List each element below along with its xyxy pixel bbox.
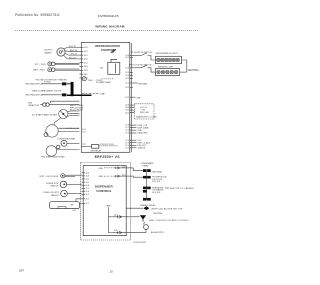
svg-text:WHT-16: WHT-16 [70,50,78,52]
svg-text:CONTROL: CONTROL [96,189,111,193]
svg-text:J2-2: J2-2 [85,179,89,181]
svg-text:J1-2: J1-2 [85,199,89,201]
svg-text:CONDENSER FAN: CONDENSER FAN [57,137,75,140]
net labels display bus [138,125,151,150]
ice cube paddle switch S5 [43,190,82,197]
dispenser assembly dashed boundary [81,163,131,241]
wire line bus vertical [108,207,112,232]
wire row2 with connector blobs [132,176,144,177]
heavy line wire into board [67,94,92,96]
svg-text:J2-3: J2-3 [85,176,89,178]
svg-text:SW RELAY: SW RELAY [91,150,102,153]
wire keypad to board [79,203,81,205]
wire evap fan to compressor [54,118,60,125]
neutral bus bar (black) [71,82,74,96]
auger motor connector diamond [143,206,149,210]
DC evaporator fan motor M1 [59,109,68,118]
FRZ door switch S2 [134,65,155,72]
SW relay K2 inside board [91,145,98,149]
svg-text:J1-2: J1-2 [82,144,86,146]
water valve V1 [140,215,190,222]
dotted separator line [15,29,199,31]
svg-text:LINE: LINE [98,176,103,178]
svg-text:WIRING DIAGRAM: WIRING DIAGRAM [95,25,125,29]
relay K1 inside board [108,49,120,74]
svg-text:BLK-16: BLK-16 [69,46,77,48]
svg-text:AND CUSHION ICE AND CONTROL: AND CUSHION ICE AND CONTROL [149,219,189,222]
pin J6-4 arrow [113,215,127,218]
wire capacitor rows [49,104,79,106]
wire defrost row [42,83,63,85]
VC compressor motor M2 [46,125,58,137]
defrost heater circuit labels [26,78,68,85]
wire to neutral w/ connector blobs row1 [132,168,144,171]
refrigerator lamps DS1 [156,56,182,63]
lights circuit labels [26,89,62,96]
pin J6-1 arrow [113,231,127,234]
freezer relay blob [143,198,147,201]
ice chute switch S3 [39,174,81,178]
svg-text:LINE: LINE [136,98,141,100]
wire lights row [42,94,63,96]
svg-text:FILL SOL: FILL SOL [152,181,161,183]
svg-text:J1-3: J1-3 [82,132,86,134]
svg-text:J6-1: J6-1 [114,230,118,232]
svg-text:NEUTRAL: NEUTRAL [188,69,200,72]
right pins of dispenser board [126,168,146,233]
svg-text:BLU-22 P12(1): BLU-22 P12(1) [70,110,83,112]
svg-text:J6-4: J6-4 [114,214,118,216]
svg-text:FASTON TO CABINET: FASTON TO CABINET [170,187,195,190]
svg-text:J2-1: J2-1 [73,210,77,212]
condenser fan motor M3 [61,140,67,146]
wire to neutral bar [67,83,71,85]
svg-text:RXD GND: RXD GND [140,112,149,114]
svg-text:SPST - ON DR SOLE: SPST - ON DR SOLE [39,176,59,178]
svg-text:STC - P9(1): STC - P9(1) [35,64,46,66]
svg-text:LINE: LINE [98,168,103,170]
compressor aux terminal [44,133,48,137]
svg-text:FREEZER LIGHT: FREEZER LIGHT [158,67,175,69]
svg-text:J1-8: J1-8 [85,185,89,187]
wire freezer fan [57,148,80,150]
wire condenser fan [67,142,79,144]
svg-text:NEUTRAL: NEUTRAL [153,212,163,215]
svg-text:FILL SOL: FILL SOL [152,192,161,194]
svg-text:DATA GND: DATA GND [138,132,148,135]
supply mains label [44,50,53,55]
run capacitor C1 labels [28,103,39,107]
svg-text:DC EVAPORATOR FAN: DC EVAPORATOR FAN [32,113,57,116]
svg-text:LINE: LINE [100,93,105,95]
wire evap fan leads [67,111,79,116]
svg-text:CAPACITOR: CAPACITOR [28,104,39,107]
svg-text:GND: GND [138,130,143,132]
diagnostic connector dashed box [135,104,155,119]
LINE net label inside board [82,92,99,94]
FF door switch S1 [134,53,155,60]
svg-text:MED - P2(2): MED - P2(2) [33,70,45,72]
svg-text:FGHB2844LF5: FGHB2844LF5 [98,14,119,18]
pin number labels J2 [125,55,130,149]
svg-text:NEUTRAL WHT-16: NEUTRAL WHT-16 [26,82,44,85]
svg-text:MAIN COMPARTMENT LIGHTS: MAIN COMPARTMENT LIGHTS [32,89,61,92]
refrigeration control board U1 [81,42,131,152]
dashed aux line under relay [101,78,114,80]
flow meter circle [144,225,149,230]
svg-text:DOM DISTR: DOM DISTR [134,242,147,244]
svg-text:VERTICAL AUGER MOTOR: VERTICAL AUGER MOTOR [151,207,183,210]
ice maker fill solenoid blobs [143,187,147,190]
wire line feed row 2 with pin arrow [104,175,126,177]
svg-text:J1-6: J1-6 [85,191,89,193]
dispenser relay label [141,162,155,167]
svg-text:FRAMED RELAY: FRAMED RELAY [140,204,156,207]
svg-text:P11(2) P11(1): P11(2) P11(1) [101,144,115,146]
ground wire YEL node [33,68,79,72]
svg-text:P13(2): P13(2) [44,82,51,84]
svg-text:FF DOOR RD SWITCH: FF DOOR RD SWITCH [131,52,152,54]
connector J2 right pins of refrigeration control [130,56,138,148]
svg-text:NEUTRAL: NEUTRAL [138,83,148,86]
svg-text:Publication No. 5995527511: Publication No. 5995527511 [15,13,60,17]
connector J2/J1 left pins of dispenser control [82,173,90,206]
connector blob defrost [62,82,66,85]
svg-text:P14 MAX 250MA: P14 MAX 250MA [96,81,111,84]
svg-text:J4-1: J4-1 [122,175,126,177]
svg-text:STATUS: STATUS [138,147,146,150]
freezer evaporator fan motor M4 [46,146,57,157]
freezer fan aux terminal [57,145,60,148]
svg-text:BLU-16: BLU-16 [69,57,77,59]
svg-text:ERF2500+ VS: ERF2500+ VS [95,155,121,159]
supply mains plug P1 [57,48,65,56]
svg-text:J2-1: J2-1 [85,182,89,184]
svg-text:J2-4: J2-4 [85,173,89,175]
svg-text:J4-2: J4-2 [122,166,126,168]
svg-text:MAINS: MAINS [45,51,52,54]
wire lamp1 to neutral bus [182,60,187,72]
dispenser control board U2 [83,166,126,236]
dispenser membrane keypad [50,202,80,209]
svg-text:DEFL_2_AUX: DEFL_2_AUX [138,141,151,144]
ground wire GRN node [35,62,80,66]
svg-text:J1-7: J1-7 [85,188,89,190]
run capacitor C1 [40,103,49,106]
svg-text:PADDLE: PADDLE [50,185,59,188]
connector J4/J3 left pins of refrigeration control [79,47,88,79]
connector blob lights [62,93,66,96]
wire lamp2 to neutral bus [180,71,187,73]
vertical feed wire solenoid column [146,172,148,200]
freezer lamps DS2 [156,69,180,76]
svg-text:ORG-16: ORG-16 [70,54,78,56]
svg-text:SUPPLY: SUPPLY [44,50,53,52]
svg-text:J1-5: J1-5 [85,194,89,196]
svg-text:DIAGNOSTIC CONN: DIAGNOSTIC CONN [136,116,157,119]
svg-text:J1-1: J1-1 [85,203,89,205]
svg-text:AUGER WTR: AUGER WTR [151,231,164,234]
svg-text:RELAY: RELAY [143,165,150,168]
svg-text:NEUTRAL WHT-16: NEUTRAL WHT-16 [26,94,44,97]
svg-text:PADDLE: PADDLE [51,194,60,197]
svg-text:FRZ MECH DEFROST HEATER: FRZ MECH DEFROST HEATER [36,78,68,81]
svg-text:6/07: 6/07 [19,268,25,272]
svg-text:FRZ DOOR RD SWITCH: FRZ DOOR RD SWITCH [129,65,152,67]
svg-text:NEUTRAL: NEUTRAL [152,170,163,173]
fresh water paddle switch S4 [46,181,81,188]
svg-text:FRZ EVAPORATOR FAN: FRZ EVAPORATOR FAN [41,156,65,159]
wire BLK-16 plug to J4-3 [64,48,80,59]
svg-text:REFRIGERATOR LIGHT: REFRIGERATOR LIGHT [156,52,179,55]
wire line feed row 1 with pin arrow [104,167,126,169]
wire auger motor row [126,207,143,209]
thermostat CR symbol inside board [82,77,86,81]
wire compressor leads [58,129,79,132]
